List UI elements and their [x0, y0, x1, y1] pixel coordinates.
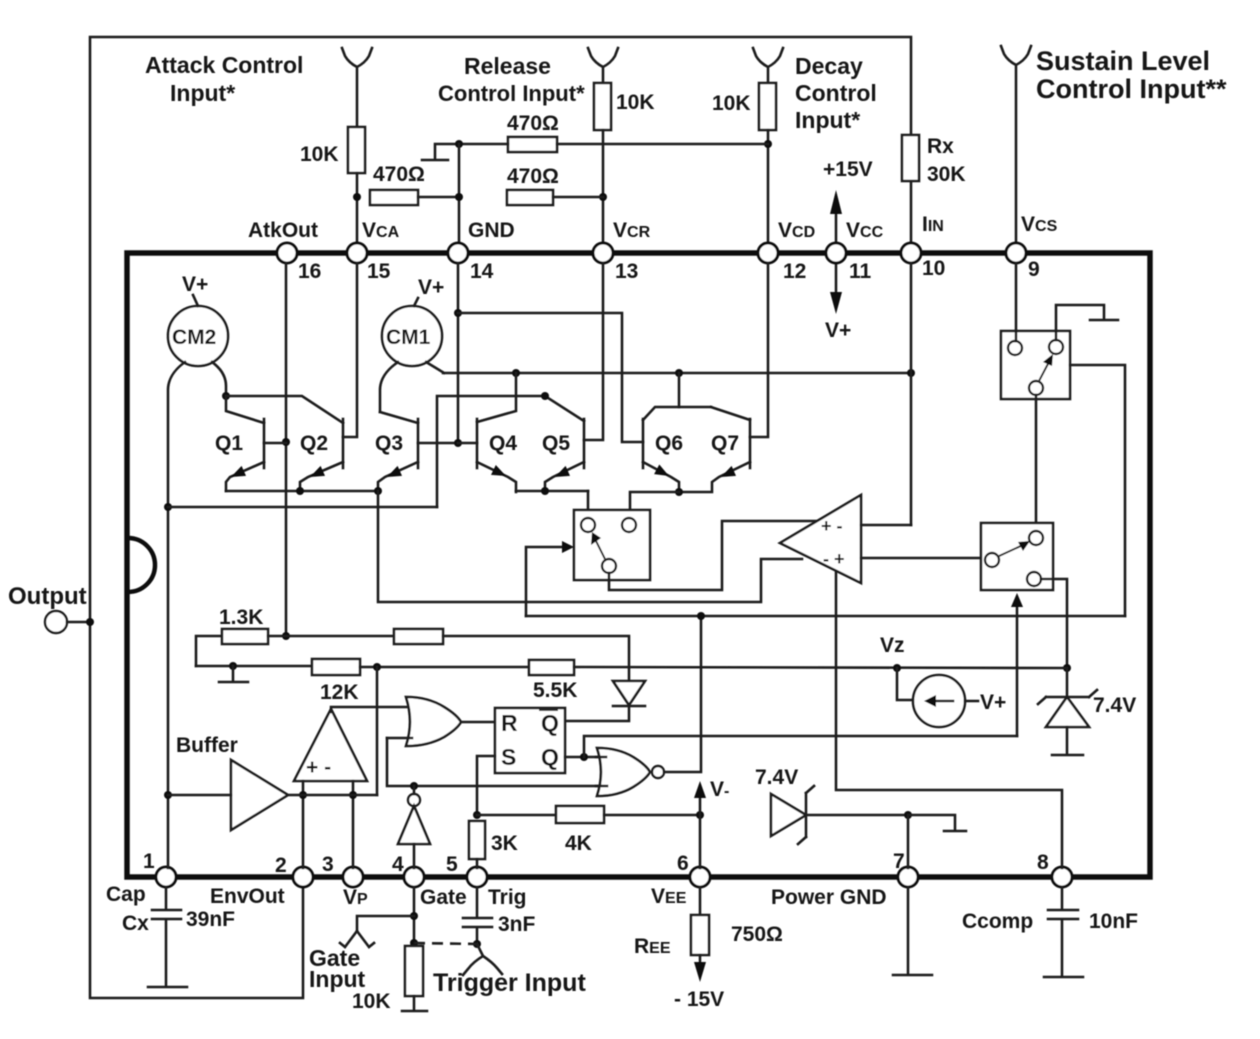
- svg-text:39nF: 39nF: [186, 908, 235, 931]
- svg-text:V+: V+: [980, 691, 1006, 714]
- diode D1: [613, 681, 645, 705]
- wire gate inverter output line to G1 and NOR: [387, 738, 598, 786]
- wire emitter rail Q1 Q2 Q3: [226, 490, 378, 493]
- wire pin12 Vcd riser to Q7 base: [750, 263, 768, 437]
- svg-text:Q7: Q7: [711, 432, 739, 455]
- wire pin14 GND riser to Q3 Q4 bases: [457, 263, 460, 443]
- svg-text:5: 5: [446, 853, 458, 876]
- svg-text:V+: V+: [182, 273, 208, 296]
- antenna Sustain Level Control Input: [1001, 46, 1031, 245]
- pin 6 Vee: [690, 867, 710, 887]
- wire Q4 Q5 emitter join to switch S1: [516, 490, 588, 493]
- svg-text:Control: Control: [795, 80, 877, 106]
- svg-text:Gate: Gate: [420, 886, 467, 909]
- svg-text:Output: Output: [8, 583, 87, 610]
- svg-text:Sustain Level: Sustain Level: [1036, 46, 1210, 76]
- svg-text:470Ω: 470Ω: [507, 112, 559, 135]
- resistor 10K on Vcr: [594, 83, 611, 130]
- svg-text:9: 9: [1028, 258, 1040, 281]
- svg-text:+15V: +15V: [823, 158, 873, 181]
- antenna Decay Control Input: [753, 48, 783, 83]
- svg-text:4: 4: [392, 853, 404, 876]
- svg-text:470Ω: 470Ω: [373, 163, 425, 186]
- svg-text:Q: Q: [541, 744, 559, 770]
- svg-text:10K: 10K: [300, 143, 339, 166]
- svg-text:10K: 10K: [616, 91, 655, 114]
- svg-text:13: 13: [615, 260, 638, 283]
- inverter INV1 gate input: [408, 794, 420, 806]
- pin 7 Power GND: [898, 867, 918, 887]
- wire NOR output to switch control line: [664, 616, 701, 772]
- row A 1.3K feedback: [196, 636, 222, 666]
- svg-text:1.3K: 1.3K: [219, 606, 263, 629]
- svg-text:15: 15: [367, 260, 391, 283]
- svg-text:8: 8: [1037, 851, 1049, 874]
- svg-text:3: 3: [322, 853, 334, 876]
- svg-text:+ -: + -: [821, 516, 843, 536]
- switch S3 box: [981, 523, 1053, 590]
- ground after Z1: [908, 815, 966, 831]
- resistor 12K: [312, 659, 360, 675]
- svg-text:Trig: Trig: [488, 886, 527, 909]
- wire Q6 Q7 emitters to switch S1 right contact: [630, 492, 679, 518]
- ground on Vz row: [219, 666, 248, 682]
- svg-text:GND: GND: [468, 219, 515, 242]
- pin 5 Trig: [467, 867, 487, 887]
- IC boundary box: [127, 253, 1150, 877]
- svg-text:Input*: Input*: [795, 107, 860, 133]
- svg-text:Input: Input: [309, 966, 366, 992]
- wire Vca vertical to pin15: [356, 173, 359, 245]
- wire CM1 right lead to collector rail: [426, 362, 444, 373]
- svg-text:3nF: 3nF: [498, 913, 536, 936]
- wire CM2 right lead: [212, 362, 226, 396]
- pin 11 Vcc: [826, 243, 846, 263]
- resistor unlabeled row A: [394, 629, 443, 644]
- OR gate G1: [406, 697, 461, 746]
- pin 8 Ccomp: [1052, 867, 1072, 887]
- svg-text:10nF: 10nF: [1089, 910, 1138, 933]
- capacitor 3nF on Trig: [476, 887, 479, 916]
- wire pin9 Vcs riser to S2: [1015, 263, 1018, 341]
- svg-text:750Ω: 750Ω: [731, 923, 783, 946]
- wire S input to 3K and pin5: [477, 756, 495, 815]
- wire CM1 left lead: [380, 362, 398, 412]
- pin 9 Vcs: [1006, 243, 1026, 263]
- wire switch S1 pole to op-amp U2 plus input: [609, 521, 816, 590]
- svg-text:11: 11: [849, 260, 872, 283]
- svg-text:+ -: + -: [306, 756, 331, 779]
- current mirror CM2: [168, 306, 228, 366]
- svg-text:Cx: Cx: [122, 912, 149, 935]
- switch S2 box: [1001, 331, 1070, 399]
- antenna Trigger Input: [463, 944, 502, 975]
- resistor 3K: [469, 821, 485, 859]
- svg-text:CM1: CM1: [386, 326, 431, 349]
- wire S3 bottom contact to zener Z2: [1041, 579, 1067, 668]
- resistor 470 ohm middle: [507, 190, 553, 205]
- svg-text:10K: 10K: [352, 990, 391, 1013]
- svg-text:Power GND: Power GND: [771, 886, 887, 909]
- svg-text:Ccomp: Ccomp: [962, 910, 1033, 933]
- svg-text:Cap: Cap: [106, 883, 146, 906]
- antenna Release Control Input: [588, 48, 618, 83]
- ground pin7 external: [907, 887, 910, 973]
- capacitor Cx 39nF: [165, 887, 168, 908]
- wire Q5 collector to cap node line: [437, 396, 545, 507]
- wire outer feedback loop pin2 EnvOut to pin10 Iin: [90, 37, 911, 998]
- svg-text:10: 10: [922, 257, 945, 280]
- svg-text:2: 2: [275, 854, 287, 877]
- wire hop arc on left IC edge: [128, 538, 155, 592]
- wire 12K junction to Vp line: [376, 667, 379, 795]
- svg-text:Q3: Q3: [375, 432, 403, 455]
- svg-text:Decay: Decay: [795, 53, 863, 79]
- svg-text:4K: 4K: [565, 832, 592, 855]
- resistor 1.3K: [222, 629, 268, 644]
- wire U2 output to pin8: [836, 572, 1062, 868]
- svg-text:CM2: CM2: [172, 326, 216, 349]
- pin 16 AtkOut: [277, 243, 297, 263]
- svg-text:16: 16: [298, 260, 321, 283]
- svg-text:14: 14: [470, 260, 494, 283]
- wire collector rail: [443, 372, 911, 375]
- svg-text:7.4V: 7.4V: [755, 766, 798, 789]
- wire CM2 left lead to cap node: [168, 362, 185, 868]
- wire control line to S1 S2: [526, 615, 1125, 618]
- svg-text:470Ω: 470Ω: [507, 165, 559, 188]
- wire S2 contact to internal ground: [1056, 305, 1118, 340]
- svg-text:V+: V+: [418, 276, 444, 299]
- svg-text:Release: Release: [464, 53, 551, 79]
- op-amp U2: [780, 495, 861, 583]
- svg-text:Vz: Vz: [880, 634, 905, 657]
- svg-text:Input*: Input*: [170, 80, 235, 106]
- svg-text:Buffer: Buffer: [176, 734, 238, 757]
- wire pin16 AtkOut riser: [285, 263, 288, 636]
- resistor 10K on Vcd: [759, 83, 776, 130]
- svg-text:Trigger Input: Trigger Input: [433, 969, 586, 997]
- svg-text:R: R: [501, 710, 518, 736]
- svg-text:Attack Control: Attack Control: [145, 52, 303, 78]
- pin 10 Iin: [901, 243, 921, 263]
- pin 12 Vcd: [758, 243, 778, 263]
- svg-text:EnvOut: EnvOut: [210, 885, 285, 908]
- svg-text:Q1: Q1: [215, 432, 243, 455]
- svg-text:Control Input**: Control Input**: [1036, 74, 1227, 104]
- svg-text:Q4: Q4: [489, 432, 517, 455]
- svg-text:30K: 30K: [927, 163, 966, 186]
- pin 4 Gate: [404, 867, 424, 887]
- wire pin15 Vca riser to Q2 base: [343, 263, 357, 437]
- resistor 470 ohm left: [370, 190, 418, 205]
- power V- arrow at pin6: [699, 792, 702, 815]
- svg-text:Q2: Q2: [300, 432, 328, 455]
- svg-text:7: 7: [893, 850, 905, 873]
- svg-text:7.4V: 7.4V: [1093, 694, 1136, 717]
- resistor 5.5K: [529, 660, 574, 675]
- svg-text:V+: V+: [825, 319, 851, 342]
- flip-flop RS latch: [495, 708, 565, 773]
- svg-text:5.5K: 5.5K: [533, 679, 577, 702]
- resistor 470 ohm top: [508, 137, 557, 152]
- comparator U3: [294, 709, 367, 781]
- svg-text:10K: 10K: [712, 92, 751, 115]
- power +15V arrow at pin11: [835, 214, 838, 245]
- resistor Ree 750 ohm: [699, 887, 702, 915]
- wire Vcr vertical to pin13: [602, 130, 605, 245]
- wire Q3 emitter to U2 lower-left input: [378, 491, 802, 602]
- switch S1 box: [574, 510, 650, 580]
- resistor 10K on Vca: [348, 127, 365, 173]
- capacitor Ccomp 10nF: [1061, 887, 1064, 908]
- svg-text:6: 6: [677, 852, 689, 875]
- wire Q output to S3 control: [565, 756, 597, 759]
- svg-text:Q5: Q5: [542, 432, 570, 455]
- svg-text:Q6: Q6: [655, 432, 683, 455]
- svg-text:- +: - +: [823, 549, 845, 569]
- svg-text:S: S: [501, 744, 516, 770]
- antenna Gate Input: [340, 916, 414, 947]
- wire pin4 gate input node: [413, 887, 416, 955]
- wire GND pin14 external vertical: [458, 144, 461, 245]
- pin 3 Vp: [343, 867, 363, 887]
- pin 2 EnvOut: [293, 867, 313, 887]
- pin 1 Cap: [156, 867, 176, 887]
- wire pin10 Iin riser to op-amp U2: [910, 263, 913, 525]
- wire Rx bottom to pin10: [910, 181, 913, 245]
- wire pin7 riser: [907, 815, 910, 868]
- current mirror CM1: [382, 306, 442, 366]
- zener diode Z2 7.4V: [1066, 668, 1069, 699]
- svg-text:Control Input*: Control Input*: [438, 81, 585, 106]
- wire S3 control from Q line: [1016, 601, 1019, 736]
- svg-text:Q: Q: [541, 710, 559, 736]
- power V+ arrow below pin11: [835, 262, 838, 296]
- svg-text:1: 1: [143, 850, 155, 873]
- wire dashed gate to trigger: [414, 943, 477, 944]
- svg-text:AtkOut: AtkOut: [248, 219, 318, 242]
- ground flag on 470 network: [422, 144, 459, 160]
- wire pin13 Vcr riser to Q5 base: [584, 263, 603, 440]
- wire Vz row 12K 5.5K: [196, 665, 312, 668]
- wire cap node horizontal: [168, 506, 437, 509]
- wire Vcd vertical to pin12: [767, 130, 770, 245]
- svg-text:12K: 12K: [320, 681, 359, 704]
- wire pin14 branch to Q6 base: [458, 313, 643, 442]
- wire switch S1 control from NOR: [526, 547, 565, 616]
- antenna Attack Control Input: [342, 48, 372, 127]
- svg-text:12: 12: [783, 260, 806, 283]
- resistor 10K gate pulldown: [405, 946, 423, 996]
- wire S2 bottom contact to S3: [1035, 395, 1038, 531]
- svg-text:Rx: Rx: [927, 135, 954, 158]
- NOR gate G2: [597, 748, 650, 796]
- pin 13 Vcr: [593, 243, 613, 263]
- resistor Rx 30K: [902, 135, 919, 181]
- resistor 4K: [477, 814, 556, 817]
- svg-text:3K: 3K: [491, 832, 518, 855]
- wire S2 right side to control line: [1070, 365, 1125, 616]
- svg-text:- 15V: - 15V: [674, 988, 724, 1011]
- pin 14 GND: [448, 243, 468, 263]
- pin 15 Vca: [347, 243, 367, 263]
